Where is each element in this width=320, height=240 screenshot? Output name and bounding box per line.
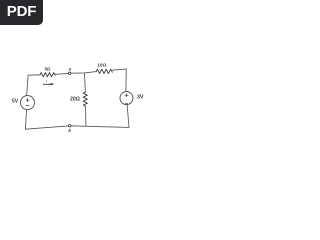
label 3V bbox=[137, 94, 144, 100]
voltage source V2 3V bbox=[120, 92, 133, 105]
wire 20ohm branch lower bbox=[85, 106, 87, 126]
wire left vertical (top corner to 5V source) bbox=[27, 75, 29, 95]
svg-text:b: b bbox=[68, 128, 71, 133]
svg-text:5V: 5V bbox=[12, 98, 19, 104]
wire 20ohm branch upper bbox=[84, 73, 87, 92]
wire right vertical lower bbox=[127, 105, 129, 128]
wire top-left horizontal (corner to R1) bbox=[28, 74, 40, 76]
resistor R1 5ohm bbox=[40, 73, 55, 77]
label 5ohm bbox=[45, 66, 51, 71]
svg-text:3V: 3V bbox=[137, 94, 144, 100]
label i bbox=[46, 80, 48, 84]
wire R1 to node a bbox=[55, 72, 68, 75]
node a bbox=[69, 72, 71, 74]
voltage source V1 5V bbox=[21, 96, 35, 110]
label 5V bbox=[12, 98, 19, 104]
resistor R3 10ohm bbox=[96, 69, 112, 73]
current arrow i bbox=[43, 83, 54, 85]
PDF badge bbox=[0, 0, 43, 25]
svg-text:10Ω: 10Ω bbox=[97, 62, 106, 68]
wire node a to junction bbox=[71, 72, 96, 74]
label 10ohm bbox=[97, 62, 106, 68]
bottom wire bbox=[25, 126, 129, 129]
label 20ohm bbox=[70, 97, 80, 103]
node b bbox=[69, 125, 71, 127]
wire below 5V source bbox=[25, 110, 26, 130]
wire R3 to top-right corner bbox=[112, 69, 126, 70]
svg-text:a: a bbox=[69, 66, 72, 71]
label a bbox=[69, 66, 72, 71]
svg-text:i: i bbox=[46, 80, 48, 84]
label b bbox=[68, 128, 71, 133]
svg-text:20Ω: 20Ω bbox=[70, 97, 80, 103]
resistor R2 20ohm bbox=[83, 92, 87, 106]
wire right vertical upper bbox=[125, 69, 127, 92]
svg-text:5Ω: 5Ω bbox=[45, 66, 51, 71]
